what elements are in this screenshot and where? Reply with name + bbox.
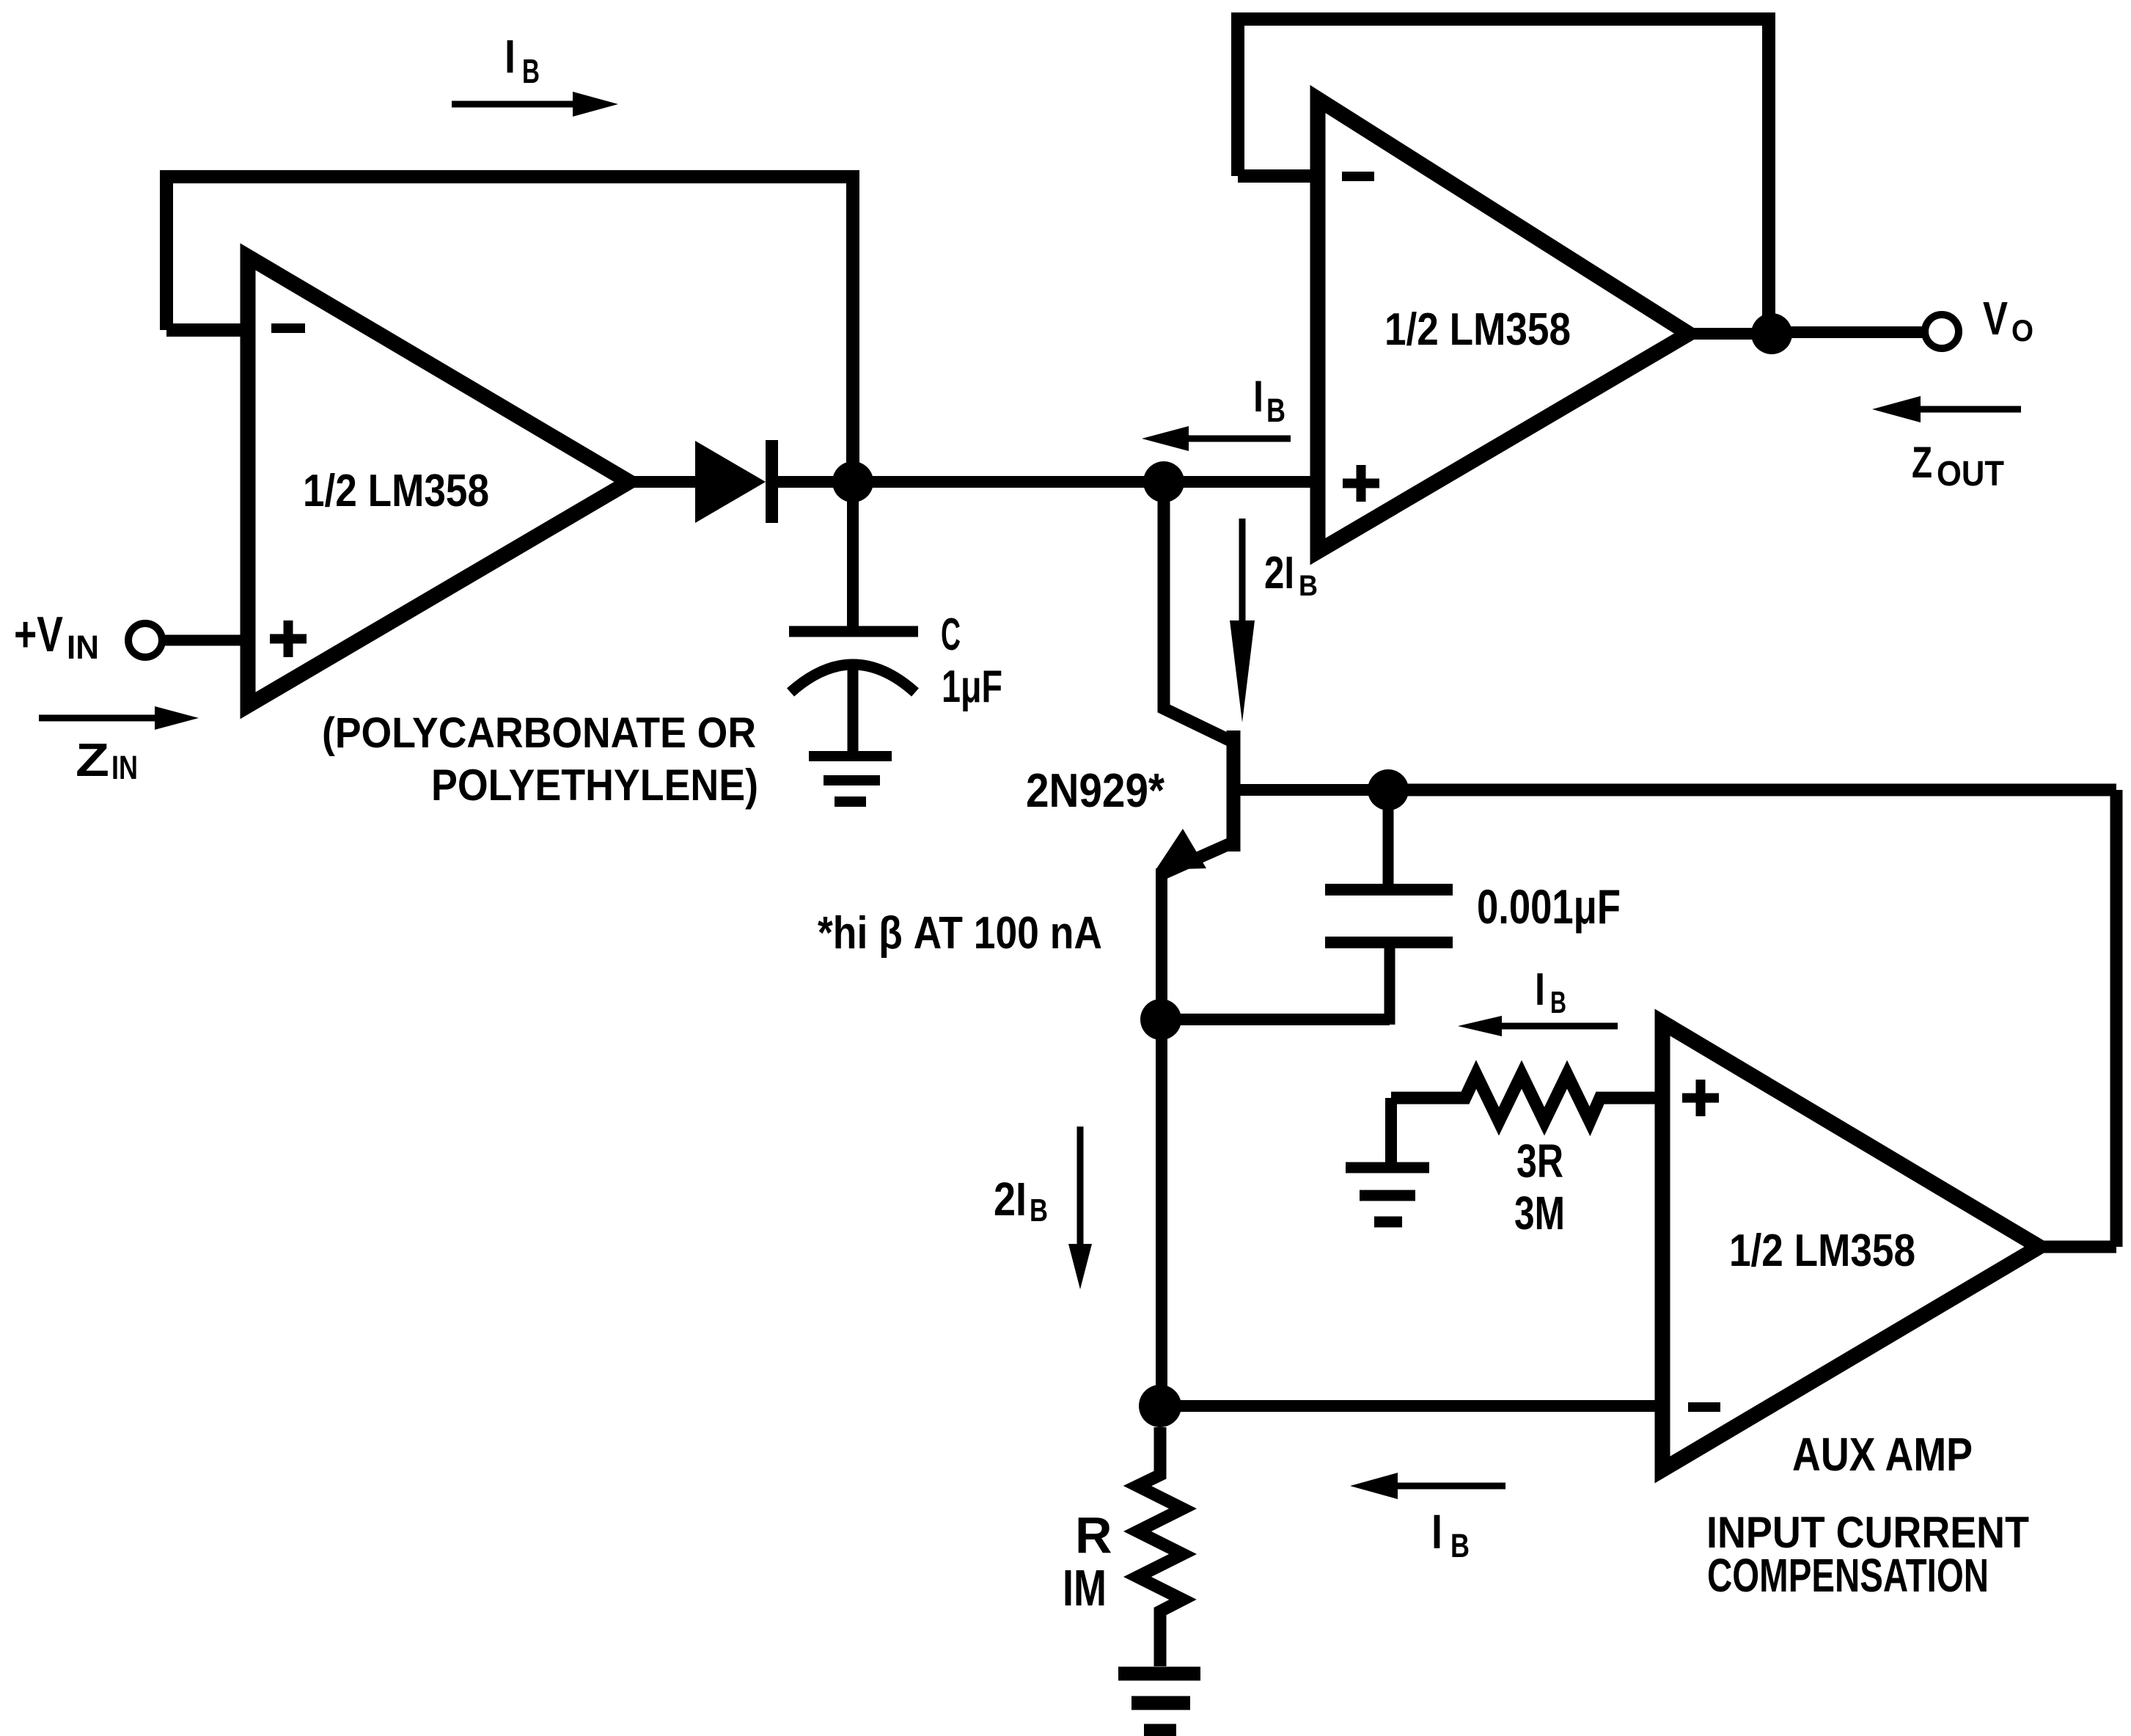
- Q1 base wire: [1233, 784, 1388, 796]
- arrow 2IB below node: [1239, 519, 1246, 622]
- U3 plus marker: [1682, 1080, 1719, 1116]
- arrow IB into U2 plus: [1186, 436, 1291, 442]
- diode D1: [695, 441, 766, 523]
- arrow IB top: [452, 101, 576, 108]
- U1 plus marker: [270, 620, 307, 657]
- node junction J4: [1140, 999, 1181, 1040]
- svg-text:IM: IM: [1063, 1559, 1107, 1616]
- svg-text:IN: IN: [111, 749, 138, 786]
- capacitor C top plate: [789, 626, 918, 637]
- svg-text:1/2 LM358: 1/2 LM358: [303, 466, 489, 516]
- op-amp U2 (1/2 LM358 output follower): [1318, 99, 1689, 552]
- U2 plus marker: [1343, 465, 1379, 502]
- terminal +VIN: [128, 623, 162, 657]
- svg-text:B: B: [1450, 1527, 1470, 1564]
- capacitor C bottom lead: [848, 662, 859, 756]
- svg-text:3M: 3M: [1514, 1187, 1565, 1239]
- C2 bottom plate: [1325, 937, 1453, 948]
- wire J5 to U3 minus input: [1160, 1400, 1662, 1412]
- arrow ZIN: [39, 715, 158, 722]
- op-amp U3 AUX AMP: [1662, 1022, 2039, 1470]
- U3 minus marker: [1688, 1402, 1720, 1412]
- wire C2 to emitter node J4: [1161, 1014, 1390, 1025]
- svg-text:1/2 LM358: 1/2 LM358: [1384, 304, 1571, 355]
- node junction J5: [1139, 1385, 1181, 1427]
- capacitor C2 0.001uF lead from J3: [1383, 790, 1394, 885]
- svg-text:+V: +V: [14, 607, 63, 662]
- wire J2 down to Q1 collector: [1164, 482, 1230, 741]
- ground stub 3R: [1385, 1098, 1397, 1167]
- svg-text:B: B: [1266, 392, 1285, 429]
- Q1 emitter: [1162, 843, 1230, 874]
- wire J2 to U2 plus input: [1164, 476, 1318, 488]
- svg-text:2I: 2I: [994, 1173, 1027, 1226]
- svg-text:I: I: [505, 30, 516, 83]
- terminal VO: [1925, 315, 1959, 348]
- svg-text:R: R: [1075, 1506, 1112, 1564]
- C2 bottom lead: [1384, 942, 1395, 1025]
- capacitor C (1uF) lead: [847, 482, 859, 626]
- resistor R 1M: [1137, 1427, 1183, 1666]
- svg-text:AUX AMP: AUX AMP: [1792, 1428, 1973, 1481]
- svg-text:O: O: [2011, 313, 2033, 348]
- op-amp U1 (1/2 LM358 input follower): [248, 257, 629, 706]
- svg-text:2I: 2I: [1264, 548, 1294, 598]
- svg-text:1/2 LM358: 1/2 LM358: [1729, 1226, 1915, 1276]
- svg-text:V: V: [1983, 292, 2008, 345]
- node junction J6 output: [1751, 313, 1792, 354]
- svg-text:I: I: [1253, 372, 1263, 421]
- arrow 2IB lower: [1077, 1127, 1084, 1245]
- svg-text:B: B: [1030, 1193, 1048, 1228]
- svg-text:Z: Z: [76, 733, 109, 786]
- node junction J1: [832, 461, 873, 502]
- resistor 3R 3M: [1391, 1074, 1662, 1121]
- ground under 3R: [1346, 1168, 1429, 1222]
- svg-text:2N929*: 2N929*: [1026, 763, 1165, 817]
- wire U1 feedback (output node to inverting input): [166, 170, 859, 482]
- svg-text:B: B: [1550, 985, 1566, 1019]
- wire U2 feedback: [1238, 12, 1775, 334]
- svg-text:COMPENSATION: COMPENSATION: [1707, 1549, 1989, 1602]
- C2 top plate: [1325, 884, 1453, 896]
- U1 minus marker: [271, 323, 305, 333]
- svg-text:OUT: OUT: [1937, 455, 2004, 494]
- wire right rail down: [2110, 790, 2123, 1247]
- arrow ZOUT: [1918, 406, 2021, 413]
- capacitor C curved plate: [791, 664, 915, 692]
- svg-text:B: B: [522, 52, 540, 90]
- wire diode to node: [778, 476, 853, 488]
- ground under C: [809, 756, 892, 802]
- Q1 emitter arrow: [1156, 829, 1206, 870]
- svg-text:I: I: [1535, 964, 1545, 1015]
- U2 minus marker: [1342, 172, 1374, 181]
- node junction J2: [1143, 461, 1184, 502]
- wire storage node J1 to J2: [853, 476, 1164, 488]
- svg-text:I: I: [1431, 1504, 1442, 1559]
- arrow IB lower: [1395, 1483, 1505, 1490]
- svg-text:POLYETHYLENE): POLYETHYLENE): [431, 761, 758, 810]
- svg-text:Z: Z: [1912, 438, 1932, 487]
- svg-text:3R: 3R: [1516, 1135, 1563, 1187]
- wire U1 output to diode: [629, 476, 698, 488]
- wire U2 output: [1689, 332, 1923, 334]
- transistor Q1 2N929 base bar: [1227, 730, 1241, 851]
- svg-text:1μF: 1μF: [942, 662, 1002, 712]
- node junction J3 base: [1368, 769, 1409, 810]
- svg-text:(POLYCARBONATE OR: (POLYCARBONATE OR: [322, 709, 756, 757]
- wire Q1 emitter down: [1156, 868, 1167, 1406]
- ground bottom: [1118, 1674, 1200, 1731]
- svg-text:IN: IN: [67, 629, 99, 666]
- wire U3 output stub: [2039, 1241, 2116, 1253]
- svg-text:B: B: [1299, 570, 1318, 602]
- wire +VIN to U1 plus input: [162, 635, 248, 646]
- wire J3 to right rail: [1388, 784, 2116, 796]
- svg-text:0.001μF: 0.001μF: [1477, 879, 1621, 934]
- svg-text:C: C: [941, 609, 961, 660]
- svg-text:*hi β AT 100 nA: *hi β AT 100 nA: [818, 908, 1102, 959]
- arrow IB above 3R: [1499, 1023, 1618, 1030]
